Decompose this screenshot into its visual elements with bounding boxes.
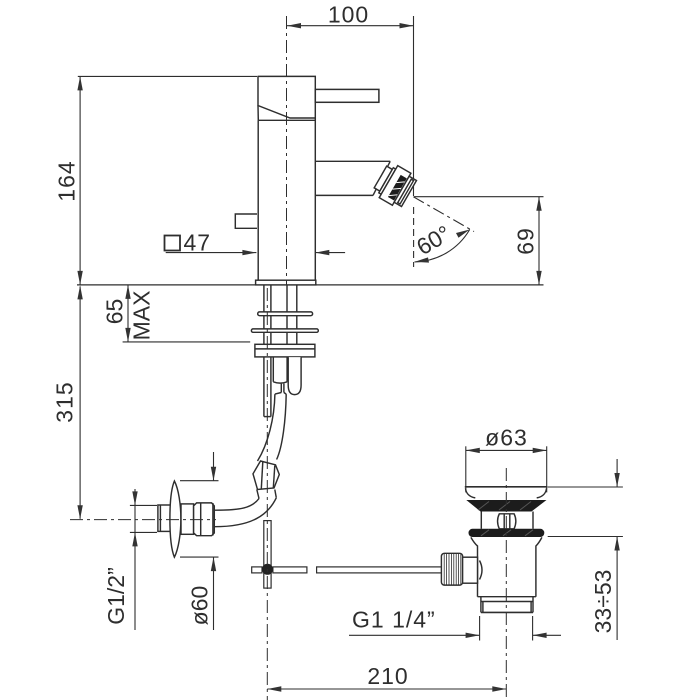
washer plate 2 — [251, 329, 318, 332]
dim 315 — [77, 285, 82, 519]
body flare — [471, 537, 478, 596]
svg-text:47: 47 — [184, 230, 212, 256]
svg-text:ø63: ø63 — [485, 425, 528, 451]
right tube rounded — [288, 357, 301, 395]
flange nut — [255, 344, 315, 357]
side tab — [235, 214, 257, 228]
dim 100 — [287, 23, 414, 28]
rim — [465, 486, 548, 488]
svg-text:MAX: MAX — [129, 291, 155, 341]
dia60 dim — [180, 452, 219, 630]
spout — [315, 160, 390, 162]
svg-text:33÷53: 33÷53 — [590, 570, 616, 634]
spout end face — [373, 161, 390, 195]
cable arc — [480, 561, 483, 580]
svg-text:164: 164 — [54, 160, 80, 201]
label square47 — [165, 236, 181, 251]
dim 65 MAX — [123, 285, 251, 342]
extension line right of 100 — [413, 16, 415, 196]
aerator assembly — [371, 161, 418, 210]
dim 33:53 — [548, 459, 623, 640]
elbow tube to wall fitting — [215, 499, 260, 511]
svg-text:315: 315 — [52, 381, 78, 422]
hose down to hex nut — [258, 394, 275, 461]
centerlines on top — [70, 16, 506, 700]
svg-text:69: 69 — [513, 227, 539, 255]
tailpiece — [478, 596, 536, 598]
svg-text:G1/2”: G1/2” — [103, 567, 129, 625]
centerline wall fitting — [70, 519, 216, 521]
G1/2 dim — [130, 489, 157, 630]
washer plate 1 — [258, 312, 313, 316]
G1 1/4 dim — [349, 616, 561, 641]
wall fitting — [158, 481, 214, 557]
faucet body sides — [257, 120, 259, 280]
vertical pop-up bar — [264, 521, 271, 589]
centerline drain — [505, 468, 507, 700]
svg-text:65: 65 — [102, 299, 128, 325]
svg-text:ø60: ø60 — [187, 586, 213, 626]
lift knob — [498, 514, 516, 529]
dim 164 — [77, 76, 257, 285]
body top — [258, 119, 315, 121]
under deck: threaded rod — [263, 285, 265, 417]
dim 69 — [414, 197, 544, 285]
dia63 dim — [466, 446, 547, 492]
handle lever — [315, 89, 379, 102]
centerline faucet body — [286, 16, 288, 285]
collar below nut — [257, 490, 277, 499]
svg-text:210: 210 — [367, 663, 408, 689]
dim 210 — [267, 686, 506, 691]
svg-text:G1 1/4”: G1 1/4” — [352, 607, 436, 633]
svg-text:100: 100 — [328, 1, 369, 27]
middle tube below flange — [272, 357, 274, 382]
hex union nut — [253, 461, 279, 490]
knob neck — [463, 557, 478, 583]
faucet cap — [258, 76, 316, 118]
60 degree angle — [413, 197, 474, 267]
plug neck — [480, 512, 482, 529]
deck line — [77, 284, 544, 286]
horizontal actuating rod — [252, 567, 262, 573]
cone band — [466, 500, 546, 512]
drain assembly — [441, 487, 547, 613]
base plate — [256, 280, 316, 285]
centerline under deck / pop-up rod — [266, 288, 268, 700]
washer band — [469, 529, 545, 537]
knurled knob — [441, 553, 462, 585]
supply tube above flange — [286, 285, 288, 344]
